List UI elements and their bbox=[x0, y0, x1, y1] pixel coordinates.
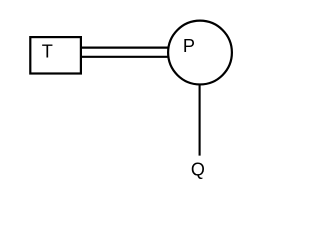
string wire bbox=[199, 84, 201, 156]
double link upper wire bbox=[81, 46, 168, 48]
double link lower wire bbox=[81, 56, 168, 58]
svg-text:T: T bbox=[42, 42, 53, 62]
circle P bbox=[168, 21, 232, 85]
svg-text:Q: Q bbox=[191, 160, 205, 180]
block T bbox=[30, 37, 81, 73]
svg-text:P: P bbox=[183, 36, 195, 56]
